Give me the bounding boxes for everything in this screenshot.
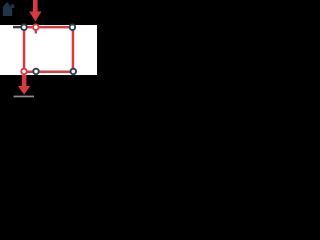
node N4 (bottom-left junction, red ring) <box>21 69 27 75</box>
wire left edge (red vertical) <box>23 27 26 73</box>
wire top (red, N1 to N3) <box>23 26 74 29</box>
node N5 (bottom-mid junction) <box>33 69 39 75</box>
node N2 (top-mid junction, red ring) <box>33 24 39 30</box>
background (transparent strips render as black) <box>0 0 97 100</box>
wire tick below node N2 <box>35 29 37 34</box>
wire stub (gray, left of node N1) <box>13 26 22 28</box>
arrow A1 (top, pointing down at node N2) <box>29 0 41 22</box>
wire right edge (red vertical) <box>72 27 75 73</box>
wire bottom (red, N4 to N6) <box>23 71 75 74</box>
arrow A2 (bottom-left, pointing down) <box>18 75 30 95</box>
node N6 (bottom-right junction) <box>71 69 77 75</box>
schematic band (opaque white area) <box>0 25 97 75</box>
node N3 (top-right junction) <box>70 24 76 30</box>
node N1 (top-left junction) <box>21 24 27 30</box>
icon (top-left navy glyph) <box>3 2 15 16</box>
rail line (gray, below arrow A2) <box>14 96 35 98</box>
